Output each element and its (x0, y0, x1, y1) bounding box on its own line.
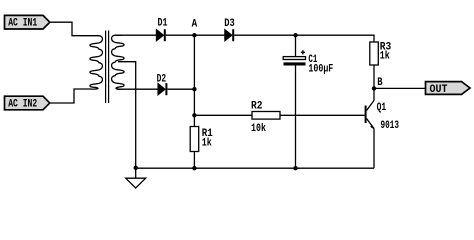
svg-text:Q1: Q1 (377, 102, 387, 114)
svg-text:AC IN2: AC IN2 (8, 99, 37, 111)
port tag AC IN1 (5, 15, 50, 29)
svg-text:100µF: 100µF (308, 64, 333, 76)
resistor R2 (251, 101, 280, 136)
wire D2 to node A column (167, 88, 194, 90)
node B (372, 77, 383, 91)
svg-text:AC IN1: AC IN1 (8, 18, 37, 30)
wire R3 bottom to node B (373, 65, 375, 88)
capacitor C1 (283, 35, 333, 75)
junction dot C1 bottom (293, 166, 297, 170)
wire AC IN1 to transformer primary top (50, 22, 99, 36)
svg-text:OUT: OUT (430, 84, 448, 96)
wire node B to OUT (374, 87, 426, 89)
svg-text:1k: 1k (380, 51, 390, 63)
junction dot C1 top (293, 33, 297, 37)
wire R2 from column to base (194, 114, 364, 116)
svg-text:D2: D2 (157, 74, 167, 86)
svg-text:R2: R2 (251, 101, 263, 113)
wire node A column down (193, 35, 195, 126)
svg-text:B: B (377, 77, 383, 89)
wire secondary top to D1 (115, 34, 157, 36)
wire D1 to node A (166, 34, 195, 36)
node A (192, 19, 198, 38)
wire secondary center tap to ground column (118, 62, 136, 167)
junction dot ground (134, 166, 138, 170)
svg-text:1k: 1k (202, 138, 212, 150)
wire D3 to R3 top corner (234, 35, 374, 42)
transistor Q1 (366, 101, 400, 132)
diode D3 (224, 18, 235, 41)
transformer T1 secondary winding (112, 35, 125, 89)
junction dot R1 bottom (192, 166, 196, 170)
resistor R1 (190, 127, 213, 152)
svg-text:D3: D3 (224, 18, 235, 30)
svg-text:10k: 10k (251, 123, 266, 135)
wire secondary bottom to D2 (117, 88, 158, 90)
diode D2 (157, 74, 167, 96)
wire emitter down (373, 129, 375, 169)
svg-text:D1: D1 (158, 17, 168, 29)
transformer T1 primary winding (90, 36, 103, 89)
port tag OUT (426, 82, 471, 96)
junction dot R2 branch (192, 113, 196, 117)
junction dot D2/column (192, 87, 196, 91)
wire node A to D3 (194, 34, 225, 36)
wire R1 bottom (193, 152, 195, 169)
wire node B down to collector (373, 88, 375, 100)
transformer T1 core (106, 31, 109, 104)
bottom rail wire (136, 167, 374, 169)
wire AC IN2 to transformer primary bottom (50, 89, 91, 103)
diode D1 (157, 17, 168, 41)
port tag AC IN2 (5, 96, 50, 110)
ground symbol (126, 168, 146, 188)
resistor R3 (370, 42, 392, 65)
wire C1 bottom (295, 66, 297, 169)
svg-text:9013: 9013 (381, 120, 400, 132)
svg-text:A: A (192, 19, 198, 31)
